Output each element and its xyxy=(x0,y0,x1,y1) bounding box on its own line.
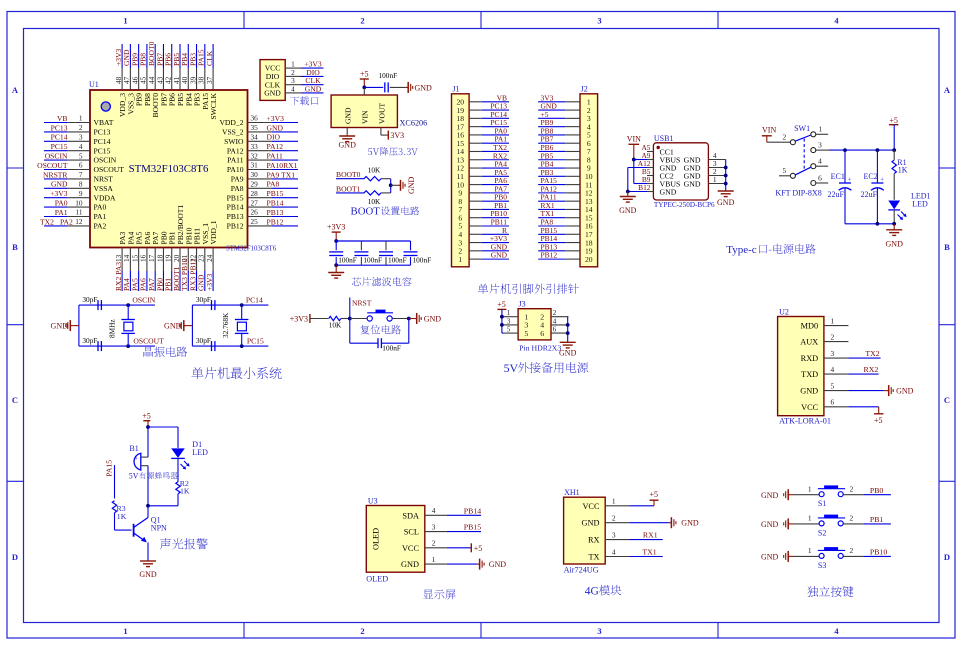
svg-text:PA10RX1: PA10RX1 xyxy=(267,161,298,170)
svg-text:2: 2 xyxy=(849,546,853,555)
gnd power left right osc xyxy=(164,320,192,331)
svg-text:PC15: PC15 xyxy=(247,337,264,346)
svg-text:GND: GND xyxy=(684,179,701,188)
svg-text:GND: GND xyxy=(264,89,281,98)
U1 bottom pin 13 PA3 wire + net label xyxy=(114,231,127,291)
wire GND rail (A12-B12) + earth xyxy=(619,168,647,216)
svg-text:GND: GND xyxy=(51,322,69,331)
svg-text:6: 6 xyxy=(540,329,544,338)
J2 pin 20 wire + net PB12 xyxy=(538,251,593,264)
capacitor 30pF top left osc xyxy=(82,295,101,310)
push button reset SW xyxy=(350,310,411,322)
power +5 buzzer xyxy=(142,412,151,429)
svg-text:U2: U2 xyxy=(779,308,789,317)
U1 right pin 31 PA10 wire + net label xyxy=(227,161,298,174)
U2 pin3 wire TX2 xyxy=(848,349,880,358)
diode LED1 xyxy=(888,192,930,224)
svg-text:+5: +5 xyxy=(650,490,659,499)
svg-text:VSS_2: VSS_2 xyxy=(222,128,244,137)
J3 right rail to gnd xyxy=(559,317,577,358)
label TYPEC-250D-BCP6 xyxy=(654,201,715,209)
svg-text:C: C xyxy=(944,395,950,405)
svg-text:XC6206: XC6206 xyxy=(400,119,428,128)
download port pin 1 VCC xyxy=(265,60,324,73)
svg-text:4: 4 xyxy=(291,84,295,93)
svg-text:BOOT0: BOOT0 xyxy=(336,170,361,179)
crystal 32.768K xyxy=(221,305,248,346)
svg-text:PB14: PB14 xyxy=(267,199,284,208)
svg-text:SWIO: SWIO xyxy=(224,137,244,146)
svg-text:100nF: 100nF xyxy=(388,255,407,264)
svg-text:SW1: SW1 xyxy=(794,124,810,133)
svg-text:GND: GND xyxy=(761,520,779,529)
svg-text:GND: GND xyxy=(424,315,442,324)
svg-text:4: 4 xyxy=(432,506,436,515)
caption 5V外接备用电源 xyxy=(504,361,589,375)
U2 pin 2 AUX xyxy=(800,332,848,346)
svg-text:25: 25 xyxy=(251,217,259,226)
svg-text:S1: S1 xyxy=(818,499,826,508)
svg-text:C: C xyxy=(12,395,18,405)
J1 pin 7 wire + net PB1 xyxy=(458,201,509,214)
J1 pin 14 wire + net TX2 xyxy=(457,143,509,156)
USB1 right pin 1 GND xyxy=(684,175,726,188)
svg-text:3: 3 xyxy=(612,530,616,539)
svg-text:TX2: TX2 xyxy=(865,349,879,358)
svg-text:100nF: 100nF xyxy=(379,71,398,80)
svg-text:PB13: PB13 xyxy=(227,212,244,221)
resistor R1 1K xyxy=(892,150,908,200)
U3 pin 2 VCC xyxy=(402,539,447,553)
USB1 left pin A9 VBUS xyxy=(641,151,680,164)
svg-text:4: 4 xyxy=(612,547,616,556)
caption 复位电路 xyxy=(360,325,401,335)
J2 pin 11 wire + net PA15 xyxy=(538,176,592,189)
svg-text:2: 2 xyxy=(849,485,853,494)
svg-text:20: 20 xyxy=(585,255,593,264)
svg-text:OSCIN: OSCIN xyxy=(45,152,68,161)
svg-text:CLK: CLK xyxy=(205,50,214,66)
switch S1 push button xyxy=(761,485,891,509)
svg-text:29: 29 xyxy=(251,180,259,189)
connector download port (VCC DIO CLK GND) body xyxy=(260,60,285,101)
svg-text:2: 2 xyxy=(849,514,853,523)
svg-text:2: 2 xyxy=(782,133,786,142)
svg-text:26: 26 xyxy=(251,208,259,217)
capacitor 100nF reset loop xyxy=(350,319,409,353)
J2 pin 12 wire + net PA12 xyxy=(538,184,593,197)
XH1 pin1 +5 xyxy=(629,490,658,506)
caption Type-c口-电源电路 xyxy=(726,244,815,256)
U1 top pin 44 BOOT0 wire + net label xyxy=(147,41,160,117)
capacitor 100nF #2 xyxy=(354,241,382,265)
svg-text:VCC: VCC xyxy=(402,544,420,553)
filter caps top/bottom rails xyxy=(334,241,410,267)
svg-text:1: 1 xyxy=(808,485,812,494)
svg-text:10K: 10K xyxy=(329,321,342,330)
svg-text:RX: RX xyxy=(588,536,600,545)
svg-text:RX2: RX2 xyxy=(864,365,879,374)
svg-text:5: 5 xyxy=(79,151,83,160)
XH1 pin4 wire TX1 xyxy=(629,548,662,557)
U1 left pin 12 PA2 wire + net label xyxy=(40,217,107,230)
svg-text:PA0: PA0 xyxy=(94,203,107,212)
net PA15 + wire xyxy=(105,460,115,499)
J1 pin 1 wire + net GND xyxy=(458,251,509,264)
caption 晶振电路 xyxy=(144,347,188,357)
U1 top pin 43 PB7 wire + net label xyxy=(155,44,168,106)
svg-text:TXD: TXD xyxy=(801,370,818,379)
svg-text:B12: B12 xyxy=(638,183,651,192)
U3 pin 4 SDA xyxy=(402,506,447,520)
U1 left pin 10 PA0 wire + net label xyxy=(44,198,107,211)
U1 top pin 38 PA15 wire + net label xyxy=(197,44,210,110)
svg-text:PB12: PB12 xyxy=(227,222,244,231)
caption 单片机最小系统 xyxy=(192,367,282,379)
J1 pin 3 wire + net +3V3 xyxy=(458,234,509,247)
svg-text:PB13: PB13 xyxy=(267,208,284,217)
U1 right pin 34 SWIO wire + net label xyxy=(224,133,298,146)
U1 top pin 46 PB9 wire + net label xyxy=(130,44,143,106)
power gnd (rotated label) xyxy=(398,176,416,194)
U1 left pin 9 VDDA wire + net label xyxy=(44,189,116,202)
bottom rail + gnd xyxy=(845,222,903,249)
svg-text:8: 8 xyxy=(79,180,83,189)
resistor R3 1K xyxy=(112,501,131,530)
svg-text:VCC: VCC xyxy=(582,502,600,511)
power +5 J3 + left rail xyxy=(497,300,506,333)
svg-text:5: 5 xyxy=(507,326,511,334)
J2 pin 14 wire + net RX1 xyxy=(538,201,593,214)
power +3V3 reset xyxy=(290,314,310,324)
svg-text:PA1: PA1 xyxy=(94,212,107,221)
svg-text:22uF: 22uF xyxy=(828,190,845,199)
svg-text:Type-c: Type-c xyxy=(726,244,756,256)
svg-text:VCC: VCC xyxy=(801,403,819,412)
J1 pin 9 wire + net PA7 xyxy=(458,184,509,197)
svg-text:5: 5 xyxy=(524,329,528,338)
svg-text:+3V3: +3V3 xyxy=(205,273,214,291)
J1 pin 10 wire + net PA6 xyxy=(457,176,509,189)
svg-text:GND: GND xyxy=(415,83,433,92)
svg-text:PA12: PA12 xyxy=(267,142,284,151)
svg-text:PB14: PB14 xyxy=(464,506,481,515)
svg-text:OSCOUT: OSCOUT xyxy=(37,161,68,170)
svg-text:SCL: SCL xyxy=(404,528,419,537)
svg-text:PA8: PA8 xyxy=(267,180,280,189)
module U3 OLED body xyxy=(366,497,425,584)
svg-text:100nF: 100nF xyxy=(413,255,432,264)
svg-text:+5: +5 xyxy=(360,70,369,79)
J2 pin 6 wire + net PB7 xyxy=(538,135,591,148)
earth gnd Q1 xyxy=(139,561,157,579)
svg-text:A: A xyxy=(12,85,19,95)
svg-text:1: 1 xyxy=(612,497,616,506)
svg-text:TX1: TX1 xyxy=(642,548,656,557)
J2 pin 17 wire + net PB15 xyxy=(538,226,593,239)
svg-text:OSCIN: OSCIN xyxy=(94,156,117,165)
transistor Q1 NPN xyxy=(134,506,167,561)
svg-text:GND: GND xyxy=(886,240,904,249)
connector J3 HDR2X3 body xyxy=(518,300,551,340)
J2 pin 3 wire + net +5 xyxy=(538,110,591,123)
svg-text:+5: +5 xyxy=(889,116,898,125)
U1 bottom pin 21 PB10 wire + net label xyxy=(180,227,193,291)
U1 top pin 40 PB4 wire + net label xyxy=(180,44,193,106)
svg-text:1K: 1K xyxy=(117,512,127,521)
svg-text:GND: GND xyxy=(139,570,157,579)
svg-text:NPN: NPN xyxy=(151,524,167,533)
svg-text:PB10: PB10 xyxy=(870,548,887,557)
svg-text:GND: GND xyxy=(491,251,508,260)
svg-text:5: 5 xyxy=(782,166,786,175)
svg-text:VSSA: VSSA xyxy=(94,184,114,193)
resistor R2 1K xyxy=(146,458,190,507)
svg-text:4: 4 xyxy=(834,626,839,636)
J1 pin 13 wire + net RX2 xyxy=(457,151,509,164)
svg-text:PA2: PA2 xyxy=(94,222,107,231)
XH1 pin 4 TX xyxy=(588,547,629,561)
svg-text:GND: GND xyxy=(267,123,284,132)
J1 pin 8 wire + net PB0 xyxy=(458,193,509,206)
svg-text:PA8: PA8 xyxy=(231,184,244,193)
J1 pin 19 wire + net PC13 xyxy=(457,102,509,115)
svg-text:GND: GND xyxy=(717,198,735,207)
svg-text:PA12: PA12 xyxy=(227,146,244,155)
svg-text:PB15: PB15 xyxy=(267,189,284,198)
svg-text:PC14: PC14 xyxy=(51,133,68,142)
svg-text:36: 36 xyxy=(251,114,259,123)
svg-text:6: 6 xyxy=(818,173,822,182)
svg-text:37: 37 xyxy=(205,76,214,84)
svg-text:GND: GND xyxy=(51,180,68,189)
caption 芯片滤波电容 xyxy=(352,277,412,286)
J1 pin 15 wire + net PA1 xyxy=(457,135,509,148)
vout pin to 3V3 xyxy=(381,128,404,141)
svg-text:+3V3: +3V3 xyxy=(327,223,345,232)
U1 bottom pin 19 PB1 wire + net label xyxy=(164,231,177,291)
download port pin 3 CLK xyxy=(265,76,324,89)
svg-text:2: 2 xyxy=(79,123,83,132)
resistor 10K BOOT0 xyxy=(336,166,391,181)
svg-text:AUX: AUX xyxy=(800,338,818,347)
U1 bottom pin 24 VDD_1 wire + net label xyxy=(205,220,218,291)
svg-text:PA10: PA10 xyxy=(227,165,244,174)
download port pin 2 DIO xyxy=(266,68,324,81)
svg-text:TX: TX xyxy=(588,553,599,562)
svg-text:3V3: 3V3 xyxy=(390,131,404,140)
svg-text:1: 1 xyxy=(831,316,835,325)
XH1 pin2 gnd xyxy=(629,517,699,528)
svg-text:+: + xyxy=(848,177,852,184)
svg-text:6: 6 xyxy=(79,161,83,170)
svg-text:100nF: 100nF xyxy=(363,255,382,264)
svg-text:LED: LED xyxy=(912,200,928,209)
capacitor EC2 22uF xyxy=(861,150,885,224)
svg-text:VIN: VIN xyxy=(361,110,370,124)
U1 right pin 29 PA8 wire + net label xyxy=(231,180,298,193)
U1 top pin 39 PB3 wire + net label xyxy=(188,44,201,106)
svg-text:KFT DIP-8X8: KFT DIP-8X8 xyxy=(775,189,821,198)
svg-text:NRST: NRST xyxy=(352,299,372,308)
svg-text:PB14: PB14 xyxy=(227,203,244,212)
J2 pin 18 wire + net PB14 xyxy=(538,234,593,247)
svg-text:32.768K: 32.768K xyxy=(221,312,230,338)
svg-text:1: 1 xyxy=(713,175,717,184)
svg-text:1K: 1K xyxy=(898,166,908,175)
svg-text:1: 1 xyxy=(79,114,83,123)
svg-text:S2: S2 xyxy=(818,528,826,537)
svg-text:B1: B1 xyxy=(129,444,138,453)
svg-text:B: B xyxy=(944,242,950,252)
download port pin 4 GND xyxy=(264,84,323,97)
U1 left pin 5 OSCIN wire + net label xyxy=(44,151,117,164)
U1 bottom pin 20 PB2/BOOT1 wire + net label xyxy=(172,205,185,291)
U1 top pin 42 PB6 wire + net label xyxy=(164,44,177,106)
svg-text:+3V3: +3V3 xyxy=(50,189,68,198)
svg-text:5V: 5V xyxy=(129,472,139,481)
svg-text:EC2: EC2 xyxy=(864,172,878,181)
diode D1 LED xyxy=(171,440,208,470)
svg-text:GND: GND xyxy=(401,560,419,569)
svg-text:NRST: NRST xyxy=(94,175,114,184)
svg-text:PA11: PA11 xyxy=(267,152,284,161)
svg-text:+5: +5 xyxy=(142,412,151,421)
J1 pin 6 wire + net PB10 xyxy=(458,209,509,222)
J1 pin 20 wire + net VB xyxy=(457,93,509,106)
svg-text:PA15: PA15 xyxy=(105,460,114,477)
svg-text:1: 1 xyxy=(458,255,462,264)
buzzer B1 5V有源蜂鸣器 xyxy=(129,444,148,506)
svg-text:NRSTR: NRSTR xyxy=(43,170,68,179)
capacitor 30pF bottom right osc xyxy=(196,336,215,351)
svg-text:ATK-LORA-01: ATK-LORA-01 xyxy=(779,417,831,426)
crystal 8MHz xyxy=(108,305,135,346)
svg-text:10K: 10K xyxy=(368,166,381,175)
svg-text:DIO: DIO xyxy=(267,133,281,142)
svg-text:U3: U3 xyxy=(368,497,378,506)
J2 pin 16 wire + net PA8 xyxy=(538,218,593,231)
XH1 pin 1 VCC xyxy=(582,497,629,511)
svg-text:12: 12 xyxy=(75,217,83,226)
svg-text:PC14: PC14 xyxy=(246,296,263,305)
J2 pin 9 wire + net PB4 xyxy=(538,160,591,173)
svg-text:MD0: MD0 xyxy=(801,322,819,331)
svg-text:4: 4 xyxy=(818,157,822,166)
USB1 left pin A12 GND xyxy=(638,159,677,172)
svg-text:1: 1 xyxy=(808,514,812,523)
U2 pin6 +5 xyxy=(848,407,883,425)
switch S2 push button xyxy=(761,514,891,538)
svg-text:+: + xyxy=(134,456,138,463)
label Pin HDR2X3 xyxy=(519,344,561,353)
svg-text:VB: VB xyxy=(57,114,68,123)
U3 pin 1 GND xyxy=(401,555,447,569)
svg-text:6: 6 xyxy=(831,398,835,407)
svg-text:3: 3 xyxy=(507,317,511,325)
svg-text:PB0: PB0 xyxy=(870,486,884,495)
svg-text:OSCOUT: OSCOUT xyxy=(94,165,125,174)
svg-text:VDD_1: VDD_1 xyxy=(209,220,218,244)
U2 pin4 wire RX2 xyxy=(848,365,878,374)
IC U1 STM32F103C8T6 MCU body xyxy=(89,80,277,252)
svg-text:28: 28 xyxy=(251,189,259,198)
J1 pin 17 wire + net PC15 xyxy=(457,118,509,131)
svg-text:9: 9 xyxy=(79,189,83,198)
connector J2 header body xyxy=(580,85,598,267)
svg-text:VIN: VIN xyxy=(762,126,776,135)
switch SW1 KFT DIP-8X8 xyxy=(762,124,828,198)
svg-text:VDD_2: VDD_2 xyxy=(219,118,243,127)
J2 pin 5 wire + net PB8 xyxy=(538,126,591,139)
J1 pin 12 wire + net PA4 xyxy=(457,160,509,173)
svg-text:S3: S3 xyxy=(818,561,826,570)
U1 left pin 4 PC15 wire + net label xyxy=(44,142,111,155)
svg-text:4: 4 xyxy=(834,16,839,26)
svg-text:8MHz: 8MHz xyxy=(108,319,117,338)
net labels OSCIN/OSCOUT xyxy=(132,296,164,346)
J3 pins 1/2 xyxy=(504,309,569,321)
svg-text:PA11: PA11 xyxy=(227,156,244,165)
svg-text:STM32F103C8T6: STM32F103C8T6 xyxy=(226,245,277,252)
power VIN xyxy=(627,134,641,159)
svg-text:SDA: SDA xyxy=(402,511,419,520)
svg-text:100nF: 100nF xyxy=(382,344,401,353)
svg-text:PC15: PC15 xyxy=(51,142,68,151)
U1 left pin 3 PC14 wire + net label xyxy=(44,133,111,146)
svg-text:30pF: 30pF xyxy=(82,336,97,345)
J2 pin 2 wire + net GND xyxy=(538,102,591,115)
svg-text:31: 31 xyxy=(251,161,259,170)
J1 pin 5 wire + net PB11 xyxy=(458,218,509,231)
svg-text:GND: GND xyxy=(407,176,416,194)
svg-text:D: D xyxy=(944,552,950,562)
capacitor 100nF #4 xyxy=(404,241,432,265)
svg-text:27: 27 xyxy=(251,198,259,207)
capacitor 30pF top right osc xyxy=(196,295,215,310)
svg-text:LED: LED xyxy=(192,448,208,457)
capacitor 30pF bottom left osc xyxy=(82,336,101,351)
USB1 left pin B9 VBUS xyxy=(642,175,680,188)
svg-text:11: 11 xyxy=(75,208,82,217)
J2 pin 1 wire + net 3V3 xyxy=(538,93,591,106)
svg-text:TYPEC-250D-BCP6: TYPEC-250D-BCP6 xyxy=(654,201,715,209)
svg-text:33: 33 xyxy=(251,142,259,151)
svg-text:PC13: PC13 xyxy=(94,128,111,137)
U1 right pin 36 VDD_2 wire + net label xyxy=(219,114,298,127)
svg-text:VOUT: VOUT xyxy=(377,103,386,124)
U1 bottom pin 15 PA5 wire + net label xyxy=(130,231,143,291)
svg-text:+5: +5 xyxy=(497,300,506,309)
capacitor 100nF #1 xyxy=(329,241,357,265)
svg-text:2: 2 xyxy=(360,16,364,26)
U1 bottom pin 18 PB0 wire + net label xyxy=(155,231,168,291)
U3 pin 3 SCL xyxy=(404,522,447,536)
svg-text:U1: U1 xyxy=(89,80,99,89)
svg-text:PC14: PC14 xyxy=(94,137,111,146)
svg-text:35: 35 xyxy=(251,123,259,132)
svg-text:3: 3 xyxy=(597,626,601,636)
USB1 right pin 2 GND xyxy=(684,167,726,180)
U1 top pin 41 PB5 wire + net label xyxy=(172,44,185,106)
svg-text:J3: J3 xyxy=(519,300,526,309)
svg-text:GND: GND xyxy=(305,84,322,93)
U3 pin1 gnd xyxy=(447,559,506,570)
svg-text:1: 1 xyxy=(123,626,127,636)
svg-text:2: 2 xyxy=(360,626,364,636)
svg-text:PC13: PC13 xyxy=(51,123,68,132)
caption 5V降压3.3V xyxy=(368,147,418,156)
